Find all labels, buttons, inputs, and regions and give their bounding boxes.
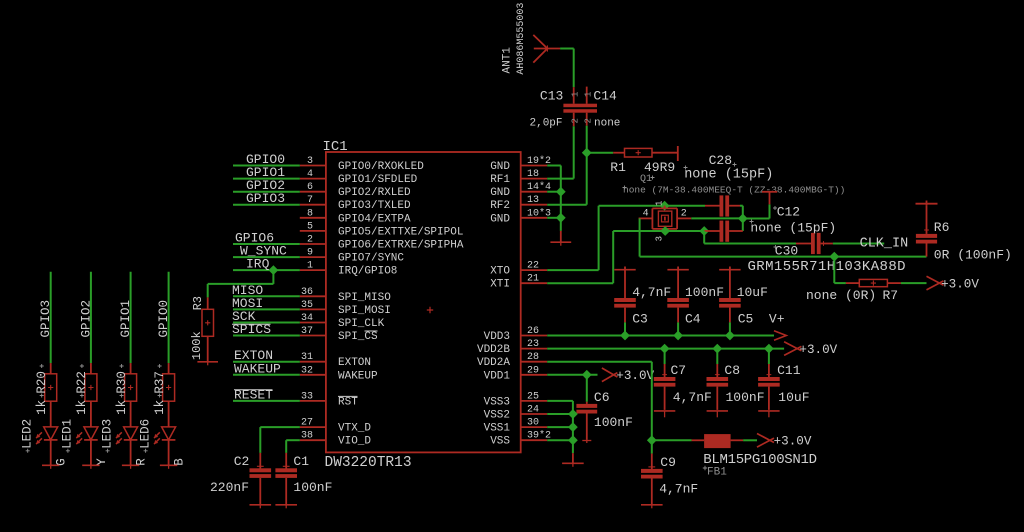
- svg-text:+3.0V: +3.0V: [774, 435, 812, 449]
- capacitor C12 none (15pF): [704, 230, 719, 232]
- svg-text:R30: R30: [115, 371, 129, 394]
- svg-text:C12: C12: [777, 205, 800, 220]
- resistor R20 1k: [50, 363, 52, 374]
- IC1 pin 38 (VIO_D) stub: [300, 439, 326, 441]
- IC1 pin 23 (VDD2B) stub: [521, 348, 548, 350]
- svg-text:GPIO6/EXTRXE/SPIPHA: GPIO6/EXTRXE/SPIPHA: [338, 240, 464, 252]
- svg-text:6: 6: [307, 182, 313, 193]
- svg-text:13: 13: [527, 195, 539, 206]
- wire XTO to crystal/C28: [547, 269, 598, 271]
- supply +3.0V at R7: [927, 276, 944, 290]
- resistor R6 0R (100nF) drawn as capacitor: [926, 243, 928, 257]
- node junction C11: [764, 344, 774, 354]
- wire net GPIO2 (LED column): [90, 272, 92, 363]
- svg-text:32: 32: [301, 365, 313, 376]
- svg-text:GPIO1/SFDLED: GPIO1/SFDLED: [338, 174, 418, 186]
- svg-text:26: 26: [527, 326, 539, 337]
- svg-text:C9: C9: [660, 455, 676, 470]
- capacitor C13 2,0pF: [573, 87, 575, 104]
- capacitor C11 10uF: [768, 349, 770, 364]
- svg-text:1: 1: [655, 201, 665, 206]
- wire net GPIO0 (LED column): [168, 272, 170, 363]
- svg-text:7: 7: [307, 195, 313, 206]
- wire net IRQ: [233, 269, 300, 271]
- svg-text:IRQ/GPIO8: IRQ/GPIO8: [338, 266, 397, 278]
- svg-text:AH086M555003: AH086M555003: [516, 3, 527, 75]
- LED LED6 (B): [168, 401, 170, 427]
- svg-text:24: 24: [527, 405, 539, 416]
- capacitor C5 10uF: [719, 269, 740, 271]
- wire C14 to RF2 node: [586, 126, 588, 153]
- svg-text:IC1: IC1: [323, 139, 348, 155]
- wire net GPIO3 (LED column): [50, 272, 52, 363]
- IC1 pin 21 (XTI) stub: [521, 282, 548, 284]
- svg-text:C2: C2: [234, 454, 250, 469]
- svg-text:R22: R22: [75, 371, 89, 394]
- svg-text:36: 36: [301, 287, 313, 298]
- svg-text:GND: GND: [490, 187, 510, 199]
- svg-text:1: 1: [571, 92, 581, 97]
- capacitor C9 4,7nF: [651, 440, 653, 453]
- svg-text:FB1: FB1: [707, 467, 727, 479]
- wire net GPIO2: [233, 191, 300, 193]
- IC1 pin 18 (RF1) stub: [521, 178, 548, 180]
- wire crystal pin4 down and east: [639, 218, 641, 256]
- svg-text:22: 22: [527, 261, 539, 272]
- svg-text:4: 4: [643, 209, 649, 220]
- capacitor C6 100nF: [586, 375, 588, 402]
- LED LED2 (G): [50, 401, 52, 427]
- IC1 pin 7 (GPIO3/TXLED) stub: [300, 204, 326, 206]
- svg-text:GRM155R71H103KA88D: GRM155R71H103KA88D: [748, 259, 906, 275]
- capacitor C30 GRM155R71H103KA88D: [796, 243, 811, 245]
- wire net W_SYNC: [233, 256, 300, 258]
- svg-text:38: 38: [301, 431, 313, 442]
- IC1 pin 36 (SPI_MISO) stub: [300, 295, 326, 297]
- svg-text:WAKEUP: WAKEUP: [234, 361, 281, 376]
- crystal Q1: [664, 206, 666, 209]
- node junction C7: [660, 344, 670, 354]
- node junction FB1/C9: [647, 435, 657, 445]
- svg-text:2: 2: [681, 209, 687, 220]
- svg-text:100k: 100k: [190, 331, 204, 360]
- node xtal right junction: [738, 214, 748, 224]
- svg-text:2,0pF: 2,0pF: [530, 118, 563, 130]
- IC1 pin 37 (SPI_CS) stub: [300, 335, 326, 337]
- node junction C8: [712, 344, 722, 354]
- wire net MISO: [233, 295, 300, 297]
- capacitor C4 100nF: [667, 269, 688, 271]
- node junction VSS2: [568, 409, 578, 419]
- supply +3.0V at VDD1: [602, 368, 618, 382]
- wire C30 to CLK_IN: [833, 243, 884, 245]
- svg-text:VDD2A: VDD2A: [477, 357, 510, 369]
- svg-text:4,7nF: 4,7nF: [659, 482, 698, 497]
- node junction to R7 branch: [829, 252, 839, 262]
- resistor R22 1k: [90, 363, 92, 374]
- svg-text:GPIO0/RXOKLED: GPIO0/RXOKLED: [338, 161, 424, 173]
- svg-text:C6: C6: [594, 390, 610, 405]
- node XTI junction at C12: [699, 226, 709, 236]
- svg-text:VSS: VSS: [490, 436, 510, 448]
- wire net GPIO0: [233, 165, 300, 167]
- svg-text:RST: RST: [338, 396, 358, 408]
- svg-text:GPIO3: GPIO3: [39, 300, 53, 338]
- svg-text:GPIO4/EXTPA: GPIO4/EXTPA: [338, 213, 411, 225]
- svg-text:35: 35: [301, 300, 313, 311]
- IC1 pin 1 (IRQ/GPIO8) stub: [300, 269, 326, 271]
- svg-text:100nF: 100nF: [293, 480, 332, 495]
- IC1 pin 34 (SPI_CLK) stub: [300, 322, 326, 324]
- svg-text:C28: C28: [709, 153, 732, 168]
- wire VSS1: [547, 426, 573, 428]
- svg-text:DW3220TR13: DW3220TR13: [325, 455, 412, 471]
- svg-text:RF1: RF1: [490, 174, 510, 186]
- IC1 pin 27 (VTX_D) stub: [300, 426, 326, 428]
- IC1 pin 33 (RST) stub: [300, 400, 326, 402]
- svg-text:GPIO3: GPIO3: [246, 191, 285, 206]
- svg-text:C3: C3: [632, 311, 648, 326]
- svg-text:2: 2: [307, 235, 313, 246]
- svg-text:C7: C7: [671, 363, 687, 378]
- ground under LED3: [130, 440, 132, 465]
- IC1 pin 19*2 (GND) stub: [521, 165, 548, 167]
- svg-text:3: 3: [655, 236, 665, 241]
- wire net WAKEUP: [233, 374, 300, 376]
- LED LED3 (R): [130, 401, 132, 427]
- svg-text:8: 8: [307, 208, 313, 219]
- svg-text:VSS1: VSS1: [484, 423, 511, 435]
- supply +3.0V at FB1: [757, 434, 774, 448]
- node RF2/R1 junction: [582, 148, 592, 158]
- IC1 pin 13 (RF2) stub: [521, 204, 548, 206]
- node GND junction at 14*4: [547, 191, 561, 193]
- svg-text:GPIO0: GPIO0: [157, 300, 171, 338]
- svg-text:C5: C5: [738, 311, 754, 326]
- wire crystal pin2 to junction: [691, 217, 743, 219]
- svg-text:none (15pF): none (15pF): [750, 220, 836, 235]
- wire net GPIO3: [233, 204, 300, 206]
- IC1 pin 30 (VSS1) stub: [521, 426, 548, 428]
- svg-text:C14: C14: [593, 88, 617, 103]
- IC1 pin 22 (XTO) stub: [521, 269, 548, 271]
- wire C13 to RF1 (pin 18): [573, 126, 575, 178]
- LED LED1 (Y): [90, 401, 92, 427]
- resistor R7 none (0R): [846, 282, 859, 284]
- wire XTI: [547, 282, 613, 284]
- svg-text:WAKEUP: WAKEUP: [338, 370, 378, 382]
- C13/C14 shared plates: [563, 104, 597, 108]
- resistor R3 100k: [207, 297, 209, 309]
- IC1 pin 39*2 (VSS) stub: [521, 439, 548, 441]
- wire XTI node down to C30 row: [703, 231, 705, 244]
- svg-text:1k: 1k: [35, 400, 49, 415]
- wire VSS3: [547, 400, 573, 402]
- IC1 pin 2 (GPIO6/EXTRXE/SPIPHA) stub: [300, 243, 326, 245]
- svg-text:V+: V+: [769, 311, 785, 326]
- node junction C4: [673, 331, 683, 341]
- IC1 pin 3 (GPIO0/RXOKLED) stub: [300, 165, 326, 167]
- wire VDD1: [547, 374, 597, 376]
- svg-text:4,7nF: 4,7nF: [632, 285, 671, 300]
- IC1 pin 10*3 (GND) stub: [521, 217, 548, 219]
- ground under LED1: [90, 440, 92, 465]
- svg-text:4,7nF: 4,7nF: [673, 390, 712, 405]
- svg-text:none (7M-38.400MEEQ-T (ZZ-38.4: none (7M-38.400MEEQ-T (ZZ-38.400MBG-T)): [623, 185, 845, 196]
- svg-text:RF2: RF2: [490, 200, 510, 212]
- IC1 pin 5 (GPIO5/EXTTXE/SPIPOL) stub: [300, 230, 326, 232]
- wire VDD2A down: [547, 361, 652, 363]
- svg-text:VDD2B: VDD2B: [477, 344, 510, 356]
- svg-text:R6: R6: [934, 220, 950, 235]
- wire GND pins chain: [547, 165, 561, 167]
- IC1 pin 24 (VSS2) stub: [521, 413, 548, 415]
- svg-text:LED3: LED3: [100, 419, 114, 449]
- svg-text:29: 29: [527, 365, 539, 376]
- IC1 pin 4 (GPIO1/SFDLED) stub: [300, 178, 326, 180]
- svg-text:33: 33: [301, 391, 313, 402]
- resistor R30 1k: [130, 363, 132, 374]
- resistor R37 1k: [168, 363, 170, 374]
- wire IRQ to R3: [269, 265, 279, 275]
- ground under C1: [275, 504, 297, 506]
- svg-text:SPI_MOSI: SPI_MOSI: [338, 305, 391, 317]
- svg-text:Q1: Q1: [640, 174, 652, 185]
- svg-text:3: 3: [307, 156, 313, 167]
- svg-text:R20: R20: [35, 371, 49, 394]
- svg-text:none (0R): none (0R): [806, 288, 876, 303]
- wire net SPICS: [233, 335, 300, 337]
- svg-text:XTO: XTO: [490, 266, 510, 278]
- capacitor C14 none: [586, 87, 588, 104]
- wire VTX_D to C2: [260, 426, 300, 428]
- wire VSS: [547, 439, 573, 441]
- IC1 pin 35 (SPI_MOSI) stub: [300, 308, 326, 310]
- svg-text:VDD1: VDD1: [484, 370, 511, 382]
- svg-text:+3.0V: +3.0V: [941, 277, 979, 291]
- ground under LED6: [168, 440, 170, 465]
- svg-text:EXTON: EXTON: [338, 357, 371, 369]
- node XTI junction at crystal pin 3: [660, 226, 670, 236]
- svg-text:18: 18: [527, 169, 539, 180]
- wire +3.0V rail from VDD2B: [547, 348, 784, 350]
- svg-text:R1: R1: [610, 160, 626, 175]
- svg-text:30: 30: [527, 418, 539, 429]
- resistor R1 49R9: [613, 152, 624, 154]
- capacitor C7 4,7nF: [664, 349, 666, 364]
- ground under C9: [641, 504, 663, 506]
- node GND junction at 10*3: [547, 217, 561, 219]
- antenna ANT1 AH086M555003: [533, 35, 547, 49]
- node junction VSS: [568, 435, 578, 445]
- svg-text:9: 9: [307, 248, 313, 259]
- svg-text:1k: 1k: [115, 400, 129, 415]
- svg-text:10uF: 10uF: [778, 390, 809, 405]
- svg-text:10uF: 10uF: [737, 285, 768, 300]
- open riser end bar: [769, 192, 771, 205]
- svg-text:0R (100nF): 0R (100nF): [934, 247, 1012, 262]
- svg-text:R37: R37: [153, 371, 167, 394]
- node junction C3: [620, 331, 630, 341]
- svg-text:R7: R7: [883, 288, 899, 303]
- svg-text:100nF: 100nF: [685, 285, 724, 300]
- svg-text:27: 27: [301, 418, 313, 429]
- ferrite bead FB1 BLM15PG100SN1D: [652, 439, 692, 441]
- svg-text:none: none: [594, 118, 620, 130]
- svg-text:31: 31: [301, 352, 313, 363]
- svg-text:VIO_D: VIO_D: [338, 436, 371, 448]
- svg-text:C11: C11: [777, 363, 801, 378]
- wire antenna to C13/C14: [560, 48, 574, 50]
- node junction VSS1: [568, 422, 578, 432]
- svg-text:100nF: 100nF: [594, 415, 633, 430]
- wire net GPIO1 (LED column): [130, 272, 132, 363]
- svg-text:4: 4: [307, 169, 313, 180]
- wire V+ rail from VDD3: [547, 335, 774, 337]
- wire R7 branch: [833, 257, 835, 284]
- svg-text:XTI: XTI: [490, 279, 510, 291]
- svg-text:5: 5: [307, 221, 313, 232]
- svg-text:GND: GND: [490, 161, 510, 173]
- svg-text:49R9: 49R9: [644, 160, 675, 175]
- node junction C5: [725, 331, 735, 341]
- wire net MOSI: [233, 308, 300, 310]
- svg-text:21: 21: [527, 274, 539, 285]
- svg-text:C8: C8: [724, 363, 740, 378]
- wire net GPIO6: [233, 243, 300, 245]
- wire C28 right to junction: [740, 205, 743, 207]
- IC1 pin 32 (WAKEUP) stub: [300, 374, 326, 376]
- svg-text:220nF: 220nF: [210, 480, 249, 495]
- svg-text:GPIO7/SYNC: GPIO7/SYNC: [338, 253, 404, 265]
- svg-text:SPI_CLK: SPI_CLK: [338, 318, 385, 330]
- svg-text:1: 1: [584, 92, 594, 97]
- IC1 pin 6 (GPIO2/RXLED) stub: [300, 191, 326, 193]
- wire junction to open riser: [743, 218, 770, 220]
- svg-text:GPIO1: GPIO1: [119, 300, 133, 338]
- wire RF2 node to R1: [587, 152, 614, 154]
- svg-text:GND: GND: [490, 213, 510, 225]
- svg-text:1: 1: [307, 261, 313, 272]
- wire net RESET: [233, 400, 300, 402]
- svg-text:SPI_MISO: SPI_MISO: [338, 292, 391, 304]
- svg-text:1k: 1k: [153, 400, 167, 415]
- svg-text:34: 34: [301, 313, 313, 324]
- IC U1 IC1 DW3220TR13 body: [326, 152, 521, 452]
- svg-text:LED6: LED6: [138, 419, 152, 449]
- svg-text:GPIO2/RXLED: GPIO2/RXLED: [338, 187, 411, 199]
- capacitor C28 none (15pF): [705, 205, 720, 207]
- node junction C6: [582, 370, 592, 380]
- capacitor C3 4,7nF: [614, 269, 635, 271]
- svg-text:ANT1: ANT1: [502, 47, 514, 74]
- svg-text:none (15pF): none (15pF): [684, 168, 773, 183]
- svg-text:2: 2: [584, 118, 594, 123]
- svg-text:100nF: 100nF: [726, 390, 765, 405]
- svg-text:+3.0V: +3.0V: [799, 343, 837, 357]
- ground under C2: [250, 504, 272, 506]
- svg-text:GPIO2: GPIO2: [79, 300, 93, 338]
- IC1 pin 9 (GPIO7/SYNC) stub: [300, 256, 326, 258]
- supply +3.0V at rail end: [784, 342, 801, 356]
- wire VIO_D to C1: [286, 439, 300, 441]
- supply V+ arrow: [774, 331, 786, 341]
- svg-text:23: 23: [527, 339, 539, 350]
- svg-text:LED1: LED1: [61, 419, 75, 449]
- svg-text:1k: 1k: [75, 400, 89, 415]
- capacitor C1 100nF: [285, 453, 287, 469]
- svg-text:C1: C1: [293, 454, 309, 469]
- svg-text:C4: C4: [685, 311, 701, 326]
- svg-text:GPIO5/EXTTXE/SPIPOL: GPIO5/EXTTXE/SPIPOL: [338, 226, 463, 238]
- svg-text:VSS3: VSS3: [484, 396, 510, 408]
- svg-text:37: 37: [301, 326, 313, 337]
- svg-text:R3: R3: [191, 296, 205, 310]
- IC1 pin 14*4 (GND) stub: [521, 191, 548, 193]
- capacitor C8 100nF: [716, 349, 718, 364]
- wire net GPIO1: [233, 178, 300, 180]
- IC1 pin 28 (VDD2A) stub: [521, 361, 548, 363]
- ground VSS: [572, 453, 574, 463]
- svg-text:C13: C13: [540, 88, 563, 103]
- wire net SCK: [233, 322, 300, 324]
- svg-text:25: 25: [527, 391, 539, 402]
- IC1 pin 8 (GPIO4/EXTPA) stub: [300, 217, 326, 219]
- svg-text:IRQ: IRQ: [246, 257, 270, 272]
- svg-text:VSS2: VSS2: [484, 410, 510, 422]
- wire net EXTON: [233, 361, 300, 363]
- ground under LED2: [50, 440, 52, 465]
- node XTO junction at crystal pin 1: [660, 201, 670, 211]
- svg-text:CLK_IN: CLK_IN: [860, 237, 909, 252]
- IC1 pin 29 (VDD1) stub: [521, 374, 548, 376]
- ground for RF GND pins: [560, 231, 562, 242]
- IC1 pin 25 (VSS3) stub: [521, 400, 548, 402]
- svg-text:VTX_D: VTX_D: [338, 423, 371, 435]
- IC1 pin 26 (VDD3) stub: [521, 335, 548, 337]
- svg-text:LED2: LED2: [21, 419, 35, 449]
- ground under R3: [207, 336, 209, 361]
- svg-text:+3.0V: +3.0V: [616, 369, 654, 383]
- svg-text:VDD3: VDD3: [484, 331, 510, 343]
- IC1 pin 31 (EXTON) stub: [300, 361, 326, 363]
- svg-text:GPIO3/TXLED: GPIO3/TXLED: [338, 200, 411, 212]
- capacitor C2 220nF: [259, 453, 261, 469]
- svg-text:2: 2: [571, 118, 581, 123]
- svg-text:28: 28: [527, 352, 539, 363]
- wire VSS2: [547, 413, 573, 415]
- svg-text:SPI_CS: SPI_CS: [338, 331, 378, 343]
